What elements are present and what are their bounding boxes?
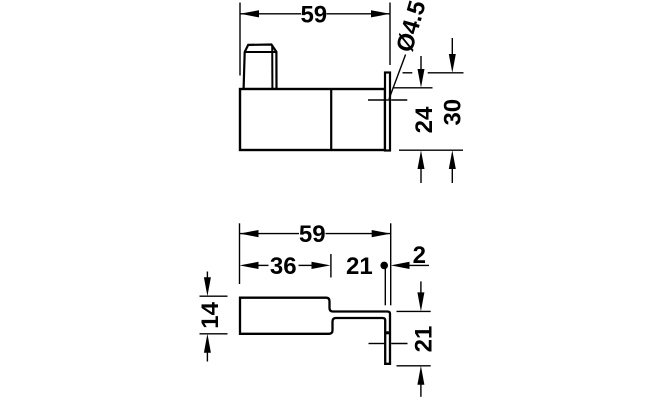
knob inner edge line [271, 45, 273, 89]
dimension 59 (top view) dimension line [240, 13, 301, 15]
dimension 36 dimension line [258, 264, 269, 266]
svg-text:21: 21 [410, 326, 437, 353]
svg-text:36: 36 [270, 253, 297, 280]
dimension 59 (top view) left arrowhead [240, 10, 259, 17]
svg-text:21: 21 [346, 253, 373, 280]
dimension 14 bottom arrow [204, 334, 211, 353]
dimension 59 (plan) extension line right [390, 223, 392, 305]
plate bridge mark [386, 331, 389, 334]
dimension 59 (plan) right arrowhead [372, 230, 391, 237]
dimension 59 (top view) extension line left [239, 3, 241, 76]
dimension 30 extension line (plate top) [403, 72, 413, 74]
dimension 36 right arrowhead [312, 262, 331, 269]
dimension 24 extension line (body top) [393, 87, 433, 89]
shared bottom extension line (24/30) [399, 149, 463, 151]
svg-text:59: 59 [300, 1, 327, 28]
dimension 36 extension line right [330, 254, 332, 278]
svg-text:59: 59 [299, 221, 326, 248]
dimension 59 (top view) extension line right [389, 3, 391, 66]
dimension 14 bottom extension tick [200, 333, 228, 335]
dimension 2 arrow [391, 262, 410, 269]
svg-text:30: 30 [439, 99, 466, 126]
dimension 30 top arrow [451, 38, 453, 55]
dimension 59 (plan) dimension line [240, 233, 300, 235]
dimension 36 left arrowhead [240, 262, 259, 269]
knob chamfer base line [245, 51, 277, 53]
dimension 21 (top, plan) end dot [380, 262, 388, 270]
body divider line [330, 89, 332, 150]
svg-text:2: 2 [413, 242, 426, 269]
dimension 21 (right, plan) top arrow [420, 281, 422, 293]
dimension 30 bottom arrow [449, 150, 456, 169]
hole centerline [368, 99, 385, 101]
dimension 21 (right, plan) top extension tick [397, 310, 431, 312]
dimension 59 (top view) right arrowhead [371, 10, 390, 17]
hook body outline [240, 89, 385, 150]
dimension 21 (right, plan) bottom arrow [417, 366, 424, 385]
svg-text:24: 24 [411, 106, 438, 133]
dimension 14 top arrow [206, 272, 208, 279]
dimension 2 extension line [384, 262, 386, 305]
mounting plate (side view bar) [385, 73, 390, 151]
svg-text:14: 14 [197, 301, 224, 328]
dimension 59 (plan) left arrowhead [240, 230, 259, 237]
dimension 24 bottom arrow [418, 150, 425, 169]
hook plan outline (body, neck, plate edge) [240, 298, 390, 364]
knob (stud on top of body) [244, 45, 277, 89]
hole centerline (plan) [369, 343, 385, 345]
dimension 21 (right, plan) bottom extension tick [397, 365, 431, 367]
hole label leader line [389, 55, 406, 100]
dimension 59 (plan) extension line left [239, 223, 241, 284]
dimension 24 top arrow [420, 56, 422, 70]
dimension 14 top extension tick [200, 295, 228, 297]
